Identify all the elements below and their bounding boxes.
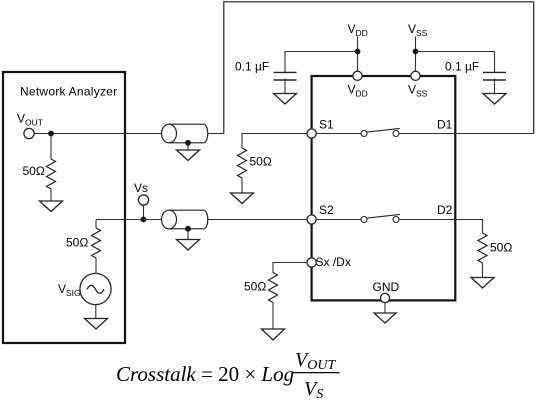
resistor R4 50Ω [269,273,278,303]
coax cable 1 [162,124,208,143]
source VSIG [80,273,111,304]
wire R2 to ground [241,178,243,193]
svg-text:Crosstalk = 20 × Log: Crosstalk = 20 × Log [116,362,294,386]
pin VDD [353,71,362,80]
ground under coax2 [177,240,200,251]
wire S2 to switch [316,219,361,221]
svg-text:D2: D2 [437,203,453,217]
wire coax2 to S2 [208,219,307,221]
resistor R3 50Ω [92,228,101,258]
svg-text:50Ω: 50Ω [250,155,272,169]
svg-text:Sx /Dx: Sx /Dx [316,255,351,269]
wire R4 to ground [272,303,274,330]
capacitor C2 0.1uF [483,72,506,80]
wire R1 to ground [50,189,52,201]
wire VDD [357,37,359,72]
wire SxDx termination [273,263,307,273]
wire VSIG to ground [95,305,97,319]
ground under coax1 [177,150,200,161]
formula Crosstalk = 20 x Log VOUT/VS [116,349,340,402]
node coax1 shield [185,140,191,146]
switch SW2 between S2 and D2 [361,214,400,222]
wire to resistor R3 [95,220,97,229]
pin S2 [307,215,316,224]
wire R5 to ground [482,263,484,278]
wire C1 to ground [284,79,286,94]
svg-text:50Ω: 50Ω [244,280,266,294]
wire S1 termination [242,134,307,149]
ground under R2 [231,193,254,204]
ground under R5 [471,278,494,289]
wire coax1 shield to ground [187,143,189,150]
svg-text:50Ω: 50Ω [23,164,45,178]
pin S1 [307,129,316,138]
wire Vs to row [143,205,145,219]
wire coax1 to loop [208,133,224,135]
svg-text:D1: D1 [437,118,453,132]
pin VSS [411,71,420,80]
svg-text:S1: S1 [319,118,334,132]
wire GND pin to ground [384,303,386,313]
wire VSS junction to cap C2 [416,52,495,73]
wire junction to resistor R1 [50,134,52,160]
pin SxDx [307,258,316,267]
ground under R4 [262,329,285,340]
wire VDD junction to cap C1 [285,52,358,73]
wire C2 to ground [494,79,496,94]
svg-text:50Ω: 50Ω [66,236,88,250]
wire S1 to switch [316,133,361,135]
capacitor C1 0.1uF [274,72,297,80]
svg-text:Vs: Vs [134,181,148,195]
Network Analyzer box [3,72,125,343]
wire VSS [415,37,417,72]
wire switch to D2 termination [399,220,483,234]
wire switch to D1 and out to loop [399,133,534,135]
resistor R5 50Ω [478,233,487,263]
wire VOUT to coax1 [34,133,162,135]
ground under C2 [483,94,506,105]
svg-text:Network Analyzer: Network Analyzer [20,85,117,99]
wire lower row NA to coax2 [96,219,162,221]
svg-text:GND: GND [373,280,400,294]
ground under R1 [40,201,63,212]
loop wire from coax1 output up over the top and down to D1 [224,2,534,134]
wire coax2 shield to ground [187,229,189,240]
node VDD junction [355,49,361,55]
node junction on VOUT wire [48,131,54,137]
node coax2 shield [185,226,191,232]
ground under VSIG [85,319,108,330]
svg-text:0.1 µF: 0.1 µF [445,60,479,74]
svg-text:0.1 µF: 0.1 µF [235,60,269,74]
terminal Vs [138,195,148,205]
svg-text:50Ω: 50Ω [490,241,512,255]
node VSS junction [413,49,419,55]
terminal VOUT [24,128,34,138]
ground under GND pin [374,313,396,323]
switch SW1 between S1 and D1 [361,128,400,136]
IC box U1 [312,76,456,300]
resistor R2 50Ω [238,148,247,178]
ground under C1 [274,94,297,105]
pin GND [380,293,389,302]
svg-text:S2: S2 [319,203,334,217]
wire R3 to VSIG [95,258,97,274]
resistor R1 50Ω [47,159,56,189]
node Vs junction [141,217,147,223]
coax cable 2 [162,210,208,229]
